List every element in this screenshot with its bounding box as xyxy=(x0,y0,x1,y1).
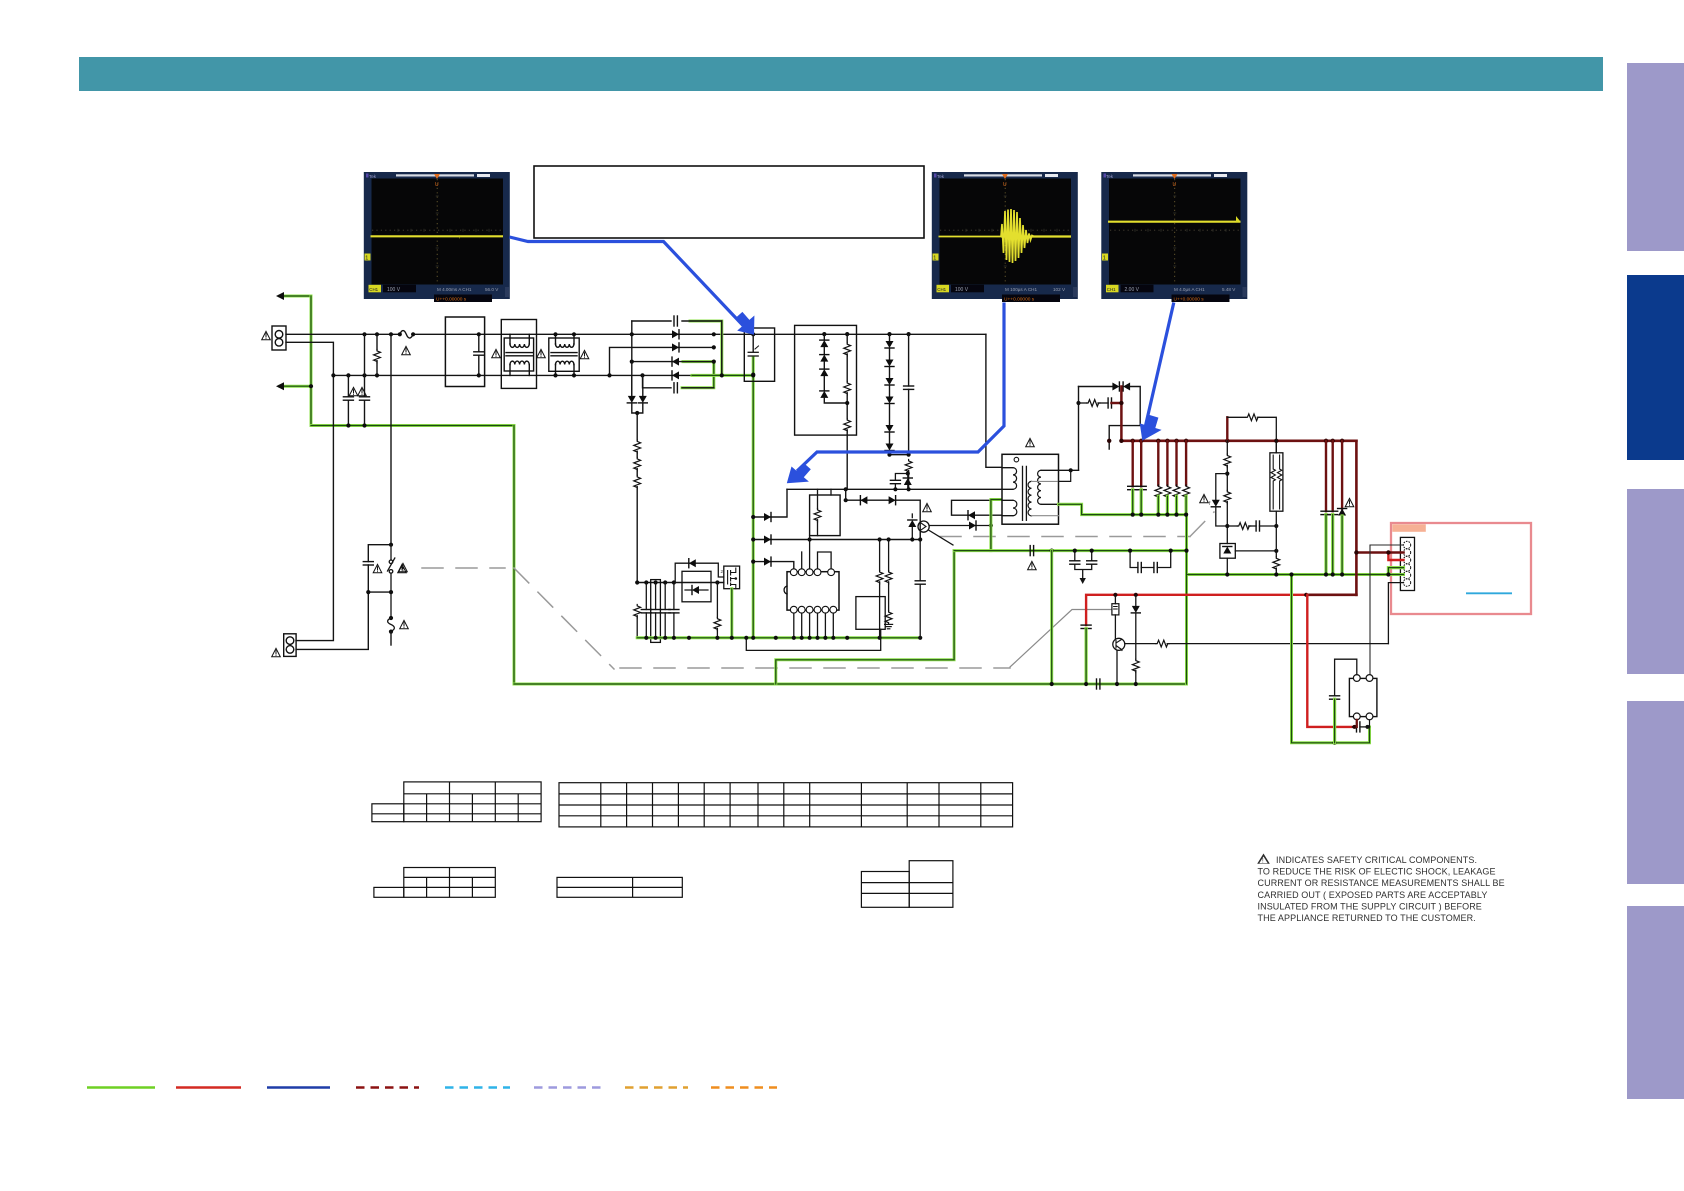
wire: line N + corner x333.4 xyxy=(286,342,333,640)
legend line red xyxy=(176,1086,241,1089)
zener D10 x912.3 xyxy=(908,514,917,542)
transistor Q801 xyxy=(1113,638,1125,686)
wire: startup rail y489.3 xyxy=(787,487,1002,491)
zener D8 top loop xyxy=(675,559,724,583)
green highlight: top cap loop xyxy=(690,321,722,375)
aux rectifier line y500.2 xyxy=(844,489,923,541)
lower AC connector CN2 xyxy=(284,634,296,657)
wire: lower bus y375.4 xyxy=(333,374,753,376)
svg-text:102 V: 102 V xyxy=(1053,287,1066,292)
startup resistor box xyxy=(810,489,841,535)
green wire: left pickup arrow lower xyxy=(276,382,313,390)
blue callout arrow 2 xyxy=(787,303,1004,484)
green highlight: lower bus right part xyxy=(692,374,753,377)
svg-text:100 V: 100 V xyxy=(955,287,969,293)
capacitor CY2 x364.5 xyxy=(360,375,370,427)
maroon wire: +B to connector pin2 xyxy=(1354,441,1403,595)
wire+diode D2 row2 y347.4 xyxy=(607,343,716,378)
capacitor C7 x908.6 xyxy=(904,332,914,457)
sidebar block 4 xyxy=(1627,701,1684,884)
wire: relay top-left loop xyxy=(1330,659,1357,743)
diode D5 down xyxy=(627,375,637,413)
resistor x717.4 xyxy=(714,583,721,639)
fuse F801 xyxy=(1112,595,1119,639)
aux diode row y515.2 xyxy=(952,500,1003,519)
svg-text:CH1: CH1 xyxy=(1107,287,1116,292)
photocoupler PC1 xyxy=(918,521,953,545)
IC bottom pin stubs xyxy=(794,613,834,638)
filter cap bank x646-674 xyxy=(646,583,674,639)
diode feed row B y539.5 xyxy=(751,535,920,544)
green wire: vertical x514 xyxy=(513,426,516,685)
diode D4 row4 on lower bus xyxy=(640,371,755,380)
red wire: pin3 jog xyxy=(1386,550,1403,560)
zener branch x1215.8 xyxy=(1200,474,1228,526)
MOSFET Q1 xyxy=(721,566,740,595)
AC inlet connector CN1 xyxy=(272,326,286,350)
timing small box xyxy=(856,597,885,630)
feedback RC y526 xyxy=(1227,521,1278,531)
parts table D xyxy=(557,877,682,897)
snubber cap+zener above startup rail xyxy=(890,471,912,491)
green wire: aux gnd y659.8 xyxy=(776,551,954,684)
polarized cap at relay xyxy=(1353,722,1370,732)
wire+diode D3 row3 y361.6 xyxy=(630,357,716,366)
svg-text:Tek: Tek xyxy=(1106,174,1114,179)
wire: bottom capacitor row y387.8 xyxy=(643,375,714,387)
snubber RC loop above bus xyxy=(1227,414,1276,453)
green wire: left pickup arrow upper xyxy=(276,292,311,300)
wire: vertical x391 down to switch xyxy=(390,334,392,544)
oscilloscope screenshot 1 xyxy=(364,172,510,303)
zener row y525.5 xyxy=(930,521,994,530)
capacitor CX1 xyxy=(474,332,484,377)
resistor R1 x377 xyxy=(374,334,381,375)
IC top pin stubs xyxy=(802,536,831,569)
wire: pin1 sense line xyxy=(1370,545,1404,675)
red wire: x1307.3 drop xyxy=(1307,595,1352,727)
sidebar block 5 xyxy=(1627,906,1684,1099)
wire: corner into T1 primary y467.3 xyxy=(986,334,1002,467)
maroon wire: +B bus y440.8 xyxy=(1121,439,1356,442)
capacitor CY1 x348.4 xyxy=(343,375,353,427)
resistor chain x637.2 xyxy=(634,413,641,583)
svg-text:Tek: Tek xyxy=(369,174,377,179)
header bar xyxy=(79,57,1603,91)
divider resistor box x1276 xyxy=(1270,441,1283,577)
oscilloscope screenshot 2 xyxy=(932,172,1078,303)
svg-text:56.0 V: 56.0 V xyxy=(485,287,499,292)
svg-text:1: 1 xyxy=(1103,256,1106,262)
sidebar block 2 xyxy=(1627,275,1684,460)
svg-text:M 100µs A CH1: M 100µs A CH1 xyxy=(1005,287,1037,292)
legend line lavender dashed xyxy=(534,1086,601,1089)
svg-text:U++0.00000 s: U++0.00000 s xyxy=(436,297,467,303)
zener chain x824.3 xyxy=(820,334,847,403)
maroon wire: output return y594.8 xyxy=(1307,593,1356,596)
capacitor C5 top row xyxy=(674,316,677,326)
capacitor C6 bottom row xyxy=(674,383,677,393)
spark gap arrester box xyxy=(744,328,774,381)
isolation boundary dash line xyxy=(399,512,1214,669)
gate drive rail y582.5 xyxy=(635,580,724,584)
resistor below x637.2 xyxy=(634,605,641,639)
parts table A xyxy=(372,782,541,822)
svg-text:TO REDUCE THE RISK OF ELECTIC: TO REDUCE THE RISK OF ELECTIC SHOCK, LEA… xyxy=(1258,867,1496,877)
sense resistor pair x879.6/x888.6 xyxy=(876,540,892,638)
IC U1 power controller xyxy=(784,569,839,613)
interlock switch S1 xyxy=(388,545,395,618)
svg-text:100 V: 100 V xyxy=(387,287,401,293)
legend line cyan dashed xyxy=(445,1086,510,1089)
diode D1 row1 xyxy=(630,330,716,339)
diode chain D7 x889.5 xyxy=(885,332,909,457)
legend line amber dashed xyxy=(625,1086,688,1089)
regulator divider chain x1227.3 xyxy=(1224,441,1231,544)
svg-text:U++0.00000 s: U++0.00000 s xyxy=(1174,297,1205,303)
primary gnd bus dots xyxy=(644,636,922,640)
capacitor across interlock xyxy=(363,543,393,565)
legend line orange dashed xyxy=(711,1086,777,1089)
wire: CN2 pin2 to interlock xyxy=(296,565,368,649)
green wire: vertical x753.2 to primary gnd xyxy=(752,357,755,637)
red wire: secondary supply y594.8 xyxy=(1086,593,1308,625)
svg-text:INDICATES SAFETY CRITICAL COMP: INDICATES SAFETY CRITICAL COMPONENTS. xyxy=(1276,855,1477,865)
svg-text:+: + xyxy=(458,235,462,241)
diode feed row C y561.6 xyxy=(751,557,794,569)
surge absorber box xyxy=(795,325,857,435)
interlock rung xyxy=(366,590,393,594)
parts table C xyxy=(374,868,495,898)
line filter box xyxy=(445,317,484,387)
svg-text:U: U xyxy=(1173,182,1177,188)
safety mark T1 xyxy=(1026,438,1035,446)
legend line blue xyxy=(267,1086,330,1089)
green wire: vertical feeder x311 xyxy=(310,296,313,426)
parts table E xyxy=(861,861,953,908)
output diode x1342.1 xyxy=(1338,441,1354,577)
safety marks switch xyxy=(373,564,406,572)
green wire: x1291.5 drop and relay gnd xyxy=(1289,572,1369,745)
green wire: x1051.7 drop xyxy=(1050,551,1054,687)
wire: line L y334.3 xyxy=(286,331,986,339)
oscilloscope screenshot 3 xyxy=(1101,172,1247,303)
svg-text:1: 1 xyxy=(933,256,936,262)
cyan jumper line xyxy=(1466,592,1512,594)
svg-text:INSULATED FROM THE SUPPLY CIRC: INSULATED FROM THE SUPPLY CIRCUIT ) BEFO… xyxy=(1258,901,1482,911)
green wire: secondary aux rail y550.6 xyxy=(954,549,1186,552)
safety mark L2 xyxy=(580,350,589,358)
wire: top capacitor row y321 xyxy=(632,321,722,375)
svg-text:M 4.00ms A CH1: M 4.00ms A CH1 xyxy=(437,287,472,292)
safety marks CY1 CY2 xyxy=(349,387,366,395)
caps on aux rail xyxy=(1028,546,1189,584)
choke L2 dots xyxy=(553,332,576,377)
snubber network xyxy=(1076,382,1140,470)
safety mark CN2 xyxy=(272,648,281,656)
electrolytic cap outline box xyxy=(651,580,661,643)
svg-text:U: U xyxy=(1003,182,1007,188)
svg-text:M 4.0µs A CH1: M 4.0µs A CH1 xyxy=(1174,287,1205,292)
svg-text:Tek: Tek xyxy=(937,174,945,179)
safety marks L1 xyxy=(492,349,546,357)
green wire: secondary winding out xyxy=(1059,504,1187,514)
svg-text:CARRIED OUT ( EXPOSED PARTS AR: CARRIED OUT ( EXPOSED PARTS ARE ACCEPTAB… xyxy=(1258,890,1488,900)
parts table B xyxy=(559,783,1013,827)
sidebar block 1 xyxy=(1627,63,1684,251)
resistor below C7 xyxy=(905,460,912,490)
svg-text:5.48 V: 5.48 V xyxy=(1222,287,1236,292)
output board highlight box xyxy=(1391,523,1531,614)
safety note text xyxy=(1257,854,1504,924)
green wire: pin4 jog xyxy=(1386,568,1403,577)
green wire: primary gnd bus y637.8 xyxy=(637,636,920,639)
legend line green xyxy=(87,1086,155,1089)
common mode choke L1 xyxy=(501,320,536,389)
green wire: aux return x990.9 xyxy=(991,500,1002,551)
green wire: horizontal run y425.5 xyxy=(311,424,514,427)
green wire: MOSFET source x731.8 xyxy=(730,589,733,638)
blue callout arrow 3 xyxy=(1140,303,1174,441)
shunt regulator TL431 xyxy=(1220,544,1279,577)
maroon wire: snubber to +B bus xyxy=(1112,387,1122,441)
svg-text:1: 1 xyxy=(365,256,368,262)
resistor chain x847.2 xyxy=(844,334,851,489)
green highlight: row3 U loop xyxy=(682,362,714,388)
wire: pin6 line down xyxy=(1388,583,1403,644)
output filter caps x1132.7 x1141.2 xyxy=(1128,441,1147,517)
green wire: x1186.5 drop and output gnd rail y574.5 xyxy=(1187,515,1404,684)
fuse F1 dots xyxy=(398,332,416,336)
legend line dark red dashed xyxy=(356,1086,419,1089)
cap below red rail xyxy=(1081,625,1091,686)
thermistor TH1 xyxy=(388,616,395,645)
output caps x1326 x1332.7 xyxy=(1321,441,1338,577)
annotation text box xyxy=(534,166,924,238)
svg-text:U++0.00000 s: U++0.00000 s xyxy=(1004,297,1035,303)
relay / line transformer block xyxy=(1349,675,1377,720)
safety mark fuse xyxy=(402,346,411,354)
wire: vertical x631.8 through rows xyxy=(631,334,633,396)
wire: vertical x364.5 xyxy=(364,334,366,375)
switching transformer T1 xyxy=(1002,454,1059,524)
svg-text:CURRENT OR RESISTANCE MEASUREM: CURRENT OR RESISTANCE MEASUREMENTS SHALL… xyxy=(1258,878,1505,888)
wire: relay bottom pins xyxy=(1357,720,1370,727)
diode D6 down xyxy=(635,375,647,415)
green wire: long bottom bus y684 xyxy=(514,683,1187,686)
feedback cap x920.2 xyxy=(915,540,925,638)
+B bus dots xyxy=(1107,401,1344,443)
svg-text:CH1: CH1 xyxy=(369,287,378,292)
blue callout arrow 1 xyxy=(510,237,755,335)
svg-text:CH1: CH1 xyxy=(937,287,946,292)
svg-text:!: ! xyxy=(1262,858,1264,864)
svg-text:2.00 V: 2.00 V xyxy=(1125,287,1140,293)
common mode choke L2 xyxy=(549,334,579,375)
cap on secondary gnd bus xyxy=(1097,679,1100,689)
safety mark CN1 xyxy=(262,331,271,339)
safety mark thermistor xyxy=(400,620,409,628)
base line y643.6 xyxy=(1125,640,1389,647)
svg-text:THE APPLIANCE RETURNED TO THE: THE APPLIANCE RETURNED TO THE CUSTOMER. xyxy=(1258,913,1476,923)
protection diode box xyxy=(682,571,711,602)
transformer right pin loop xyxy=(1059,468,1079,481)
safety mark PC1 xyxy=(923,503,932,511)
return line y650.4 xyxy=(744,629,881,650)
output connector CN801 xyxy=(1400,537,1414,590)
svg-text:U: U xyxy=(435,182,439,188)
bleeder resistors x1158-1186 xyxy=(1155,441,1190,517)
diode feed row A y517 xyxy=(751,489,787,521)
diode D801 xyxy=(1131,595,1140,686)
junction dots input xyxy=(331,332,393,377)
sidebar block 3 xyxy=(1627,489,1684,674)
